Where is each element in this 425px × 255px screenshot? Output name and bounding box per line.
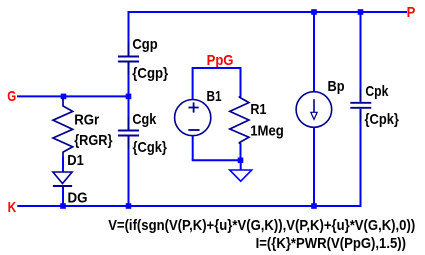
capacitor Cpk [350, 89, 371, 122]
wire G rail [17, 95, 129, 97]
junction top/Cpk [358, 9, 364, 15]
svg-text:B1: B1 [207, 88, 222, 105]
ground symbol [230, 170, 252, 181]
svg-text:DG: DG [68, 189, 88, 206]
wire junction to ground [240, 160, 242, 170]
svg-text:RGr: RGr [74, 111, 99, 128]
wire Cpk upper [360, 12, 362, 90]
junction top/Bp [311, 9, 317, 15]
junction G/RGr [61, 94, 67, 100]
wire RGr to D1 [62, 157, 64, 172]
svg-text:R1: R1 [250, 101, 266, 118]
wire B1 to ground junction [192, 159, 241, 161]
svg-text:{RGR}: {RGR} [74, 132, 112, 149]
svg-text:V=(if(sgn(V(P,K)+{u}*V(G,K)),V: V=(if(sgn(V(P,K)+{u}*V(G,K)),V(P,K)+{u}*… [108, 217, 415, 234]
diode D1 [53, 172, 72, 186]
junction G/Cgk [126, 94, 132, 100]
wire Cgk to K-rail [128, 149, 130, 206]
svg-text:Cgp: Cgp [132, 36, 157, 53]
svg-text:Cgk: Cgk [132, 111, 156, 128]
svg-text:P: P [407, 4, 416, 21]
wire D1 to K-rail [62, 187, 64, 206]
resistor R1 [230, 96, 249, 144]
svg-text:D1: D1 [67, 152, 84, 169]
capacitor Cgp [118, 43, 139, 76]
svg-text:K: K [8, 199, 17, 216]
wire G to RGr [62, 96, 64, 99]
svg-text:G: G [7, 88, 16, 105]
svg-text:Cpk: Cpk [365, 83, 389, 100]
junction K/Cgk [126, 203, 132, 209]
wire R1 to ground junction [240, 143, 242, 160]
wire Bp upper [313, 12, 315, 93]
svg-text:1Meg: 1Meg [250, 123, 284, 140]
capacitor Cgk [118, 117, 139, 150]
resistor RGr [53, 99, 73, 159]
source Bp [296, 92, 332, 128]
wire K rail [17, 205, 360, 207]
wire Cgp branch upper [128, 11, 130, 43]
svg-text:{Cpk}: {Cpk} [365, 111, 400, 128]
svg-text:PpG: PpG [207, 52, 234, 69]
wire Bp lower [313, 127, 315, 206]
wire top rail P [128, 11, 408, 13]
wire PpG to R1 [240, 67, 242, 97]
junction K/D1 [60, 203, 66, 209]
wire PpG horizontal [193, 67, 241, 69]
junction K/Bp [311, 203, 317, 209]
svg-text:Bp: Bp [328, 78, 345, 95]
wire Cgk upper [128, 96, 130, 117]
junction B1/R1/ground [238, 158, 244, 164]
svg-text:{Cgk}: {Cgk} [133, 139, 168, 156]
svg-text:I=({K}*PWR(V(PpG),1.5)): I=({K}*PWR(V(PpG),1.5)) [256, 235, 406, 252]
wire PpG to B1 [192, 67, 194, 100]
wire Cgp to G-rail [128, 75, 130, 96]
svg-text:{Cgp}: {Cgp} [132, 65, 168, 82]
wire Cpk to K-rail [360, 122, 362, 208]
wire B1 bottom [192, 136, 194, 161]
source B1 [175, 100, 211, 136]
